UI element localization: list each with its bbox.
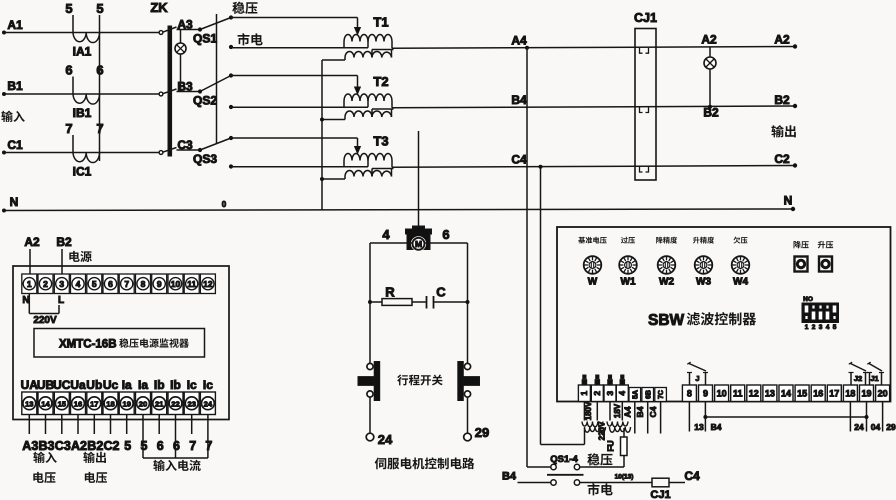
- lamp HL1: [175, 30, 186, 92]
- winding T2 series secondary: [345, 109, 394, 120]
- svg-text:6: 6: [173, 439, 180, 453]
- wire N line: [3, 200, 795, 211]
- svg-text:7: 7: [205, 439, 212, 453]
- coil CJ1: [652, 469, 700, 487]
- label shidian top: [238, 33, 263, 45]
- svg-text:220V: 220V: [33, 315, 57, 326]
- svg-text:4: 4: [826, 324, 830, 331]
- svg-text:15: 15: [58, 399, 67, 408]
- winding T1 series secondary: [345, 50, 394, 61]
- svg-text:QS1-4: QS1-4: [550, 454, 578, 465]
- svg-text:12: 12: [749, 389, 759, 399]
- transformer T2 label: [373, 74, 388, 89]
- svg-text:B2: B2: [56, 235, 72, 249]
- svg-text:18: 18: [106, 399, 114, 408]
- wire T2 secondary left to neutral bus: [322, 119, 345, 121]
- svg-text:W4: W4: [733, 277, 748, 288]
- wire T1 secondary left to neutral bus: [322, 59, 345, 61]
- svg-text:B1: B1: [7, 79, 23, 93]
- wire QS gang link: [216, 14, 218, 143]
- motor M body: [406, 226, 432, 250]
- svg-text:2: 2: [812, 324, 816, 331]
- svg-text:9: 9: [157, 279, 162, 289]
- svg-text:R: R: [385, 285, 395, 300]
- svg-text:3: 3: [819, 324, 823, 331]
- svg-text:N: N: [784, 194, 793, 208]
- svg-text:16: 16: [74, 399, 82, 408]
- svg-text:10: 10: [717, 389, 727, 399]
- svg-text:2: 2: [43, 279, 48, 289]
- svg-text:C4: C4: [511, 153, 527, 167]
- switch QS1-4 mains contact: [551, 480, 580, 485]
- svg-text:C2: C2: [104, 439, 120, 453]
- button step-down: [794, 241, 809, 272]
- winding controller supply A: [582, 422, 606, 433]
- relay contact J2: [849, 362, 869, 385]
- label shidian bottom: [588, 483, 613, 495]
- svg-text:C3: C3: [55, 439, 71, 453]
- switch QS2: [193, 73, 233, 109]
- svg-text:B4: B4: [511, 93, 527, 107]
- svg-text:IB1: IB1: [73, 106, 92, 120]
- svg-text:1: 1: [579, 391, 589, 396]
- svg-text:5A: 5A: [632, 390, 639, 399]
- potentiometer W: [584, 256, 602, 274]
- svg-text:Uc: Uc: [103, 378, 119, 392]
- breaker ZK bar: [150, 0, 171, 156]
- svg-text:Ic: Ic: [203, 378, 213, 392]
- svg-text:1: 1: [805, 324, 809, 331]
- svg-text:22: 22: [171, 399, 179, 408]
- label B2 mid: [703, 106, 719, 120]
- svg-text:Ub: Ub: [86, 378, 102, 392]
- svg-text:QS2: QS2: [193, 94, 217, 108]
- svg-text:B4: B4: [635, 406, 645, 417]
- svg-text:UB: UB: [37, 378, 55, 392]
- monitor terminal wires: [29, 415, 208, 459]
- label output: [771, 125, 795, 137]
- wire mains to coil: [580, 474, 652, 483]
- svg-text:N: N: [22, 295, 29, 306]
- svg-text:A2: A2: [71, 439, 87, 453]
- svg-text:12: 12: [203, 279, 213, 289]
- labels UA..Ic: [21, 378, 214, 392]
- potentiometer W1: [619, 256, 637, 274]
- label 220V: [598, 421, 607, 440]
- winding T3 primary: [344, 154, 392, 168]
- svg-text:3: 3: [59, 279, 64, 289]
- button step-up: [818, 241, 833, 272]
- label servo circuit: [375, 457, 475, 469]
- winding controller supply B: [607, 422, 631, 433]
- switch QS1-4 regulated contact: [551, 464, 624, 469]
- label W: [588, 277, 598, 288]
- svg-text:5: 5: [141, 439, 148, 453]
- svg-text:C4: C4: [648, 406, 658, 417]
- switch QS1: [193, 15, 233, 49]
- label B2 out: [774, 93, 790, 107]
- label A2 mid: [701, 33, 717, 47]
- label W2 function: [656, 237, 677, 244]
- svg-text:C4: C4: [684, 469, 700, 483]
- wire T3 secondary left to neutral bus: [322, 178, 345, 180]
- svg-text:ZK: ZK: [150, 0, 168, 15]
- svg-text:L: L: [58, 295, 64, 306]
- sense wires A4 B4 C4: [622, 402, 660, 434]
- svg-text:18: 18: [845, 389, 855, 399]
- svg-text:5: 5: [96, 1, 103, 16]
- svg-text:A2: A2: [701, 33, 717, 47]
- terminal strip 13-24: [22, 392, 216, 415]
- label W function: [578, 237, 606, 244]
- svg-text:14: 14: [781, 389, 791, 399]
- svg-text:7C: 7C: [658, 390, 665, 399]
- label limit switch: [397, 375, 443, 386]
- label W3 function: [693, 237, 714, 244]
- svg-text:4: 4: [382, 227, 390, 242]
- svg-text:220V: 220V: [598, 421, 607, 440]
- svg-text:B4: B4: [711, 422, 722, 432]
- contact CJ1 phase at y166: [640, 167, 649, 172]
- breaker ZK pole C3: [159, 138, 200, 154]
- label output voltage: [83, 452, 107, 483]
- wire terminal 19 down: [865, 402, 881, 433]
- wire T2 mains feed: [231, 106, 368, 108]
- node A1 input terminal: [2, 18, 23, 35]
- svg-text:C1: C1: [7, 138, 23, 152]
- breaker ZK pole B3: [159, 80, 200, 96]
- svg-text:24: 24: [854, 422, 864, 432]
- svg-text:17: 17: [90, 399, 98, 408]
- contactor CJ1 box: [634, 11, 657, 180]
- svg-text:10(13): 10(13): [615, 474, 634, 481]
- label A2 feed: [24, 235, 40, 274]
- current transformer IA1: [65, 1, 103, 59]
- wire B4 feed: [502, 471, 551, 483]
- svg-text:T2: T2: [373, 74, 388, 89]
- wire motor leads: [370, 227, 468, 243]
- terminal 24: [366, 397, 393, 447]
- controller box: [557, 227, 891, 402]
- svg-text:M: M: [415, 239, 422, 249]
- wire CT secondary vertical: [99, 15, 101, 161]
- motor M circle: [411, 236, 426, 251]
- svg-text:QS1: QS1: [193, 32, 217, 46]
- wire T1 mains feed: [231, 47, 368, 49]
- svg-text:15: 15: [797, 389, 807, 399]
- svg-text:IA1: IA1: [73, 45, 92, 59]
- svg-text:Ia: Ia: [122, 378, 132, 392]
- node B1 input terminal: [2, 79, 23, 96]
- svg-text:5: 5: [833, 324, 837, 331]
- svg-text:B2: B2: [87, 439, 103, 453]
- limit switch SQ2: [458, 362, 480, 401]
- contact CJ1 phase at y106: [640, 107, 649, 112]
- potentiometer W4: [732, 256, 750, 274]
- arrow T3 tap: [355, 147, 361, 154]
- svg-text:5: 5: [65, 1, 72, 16]
- svg-text:3: 3: [605, 391, 615, 396]
- label 180V: [584, 401, 593, 420]
- svg-text:B4: B4: [502, 471, 517, 483]
- svg-text:04: 04: [871, 422, 881, 432]
- resistor R: [368, 285, 427, 306]
- svg-text:Ua: Ua: [70, 378, 86, 392]
- wire servo left branch: [369, 243, 371, 363]
- svg-text:24: 24: [204, 399, 213, 408]
- node C1 input terminal: [2, 138, 23, 155]
- svg-text:C: C: [436, 285, 446, 300]
- svg-text:J: J: [695, 374, 699, 383]
- terminal strip 1-12: [22, 274, 216, 294]
- label SBW controller: [648, 312, 756, 329]
- svg-text:UC: UC: [53, 378, 71, 392]
- label W2: [659, 277, 674, 288]
- svg-text:10: 10: [171, 279, 181, 289]
- svg-text:N: N: [10, 195, 19, 209]
- svg-text:8: 8: [687, 389, 692, 399]
- label W1: [621, 277, 636, 288]
- labels under monitor: [22, 439, 212, 453]
- label A2 out: [774, 33, 790, 47]
- wire terminal 20 down: [883, 402, 896, 433]
- label W4 function: [734, 237, 748, 244]
- svg-text:UA: UA: [21, 378, 39, 392]
- wire C4 sense drop: [541, 167, 585, 445]
- current transformer IC1: [65, 121, 103, 179]
- wire A4 line: [392, 33, 797, 49]
- svg-text:J1: J1: [870, 374, 878, 383]
- svg-text:21: 21: [155, 399, 164, 408]
- wire B4 line: [392, 93, 797, 108]
- wire T3 mains feed: [231, 166, 368, 168]
- label C2 out: [774, 152, 790, 166]
- wire T3 regulated feed: [231, 138, 358, 148]
- transformer T3 label: [373, 134, 388, 149]
- wire C4 line: [392, 153, 797, 169]
- controller terminals 1-4: [578, 385, 628, 402]
- breaker ZK pole A3: [159, 18, 200, 35]
- svg-text:1: 1: [27, 279, 32, 289]
- label power: [69, 251, 91, 262]
- svg-text:Ib: Ib: [170, 378, 181, 392]
- svg-text:A4: A4: [622, 406, 632, 417]
- monitor box: [13, 266, 229, 420]
- fuse FU: [606, 428, 628, 467]
- svg-text:B2: B2: [774, 93, 790, 107]
- svg-text:19: 19: [122, 399, 130, 408]
- svg-text:13: 13: [694, 422, 704, 432]
- svg-text:Ia: Ia: [138, 378, 148, 392]
- svg-text:20: 20: [139, 399, 147, 408]
- label N out: [784, 194, 793, 208]
- svg-text:13: 13: [25, 399, 33, 408]
- svg-text:2: 2: [592, 391, 602, 396]
- svg-text:29: 29: [886, 422, 896, 432]
- svg-text:Ib: Ib: [154, 378, 165, 392]
- svg-text:14: 14: [41, 399, 50, 408]
- svg-text:17: 17: [829, 389, 839, 399]
- contact CJ1 phase at y47: [640, 48, 649, 53]
- svg-text:W2: W2: [659, 277, 674, 288]
- svg-text:CJ1: CJ1: [650, 489, 670, 500]
- wire T2 regulated feed: [231, 76, 358, 89]
- current transformer IB1: [65, 63, 103, 121]
- svg-text:QS3: QS3: [193, 152, 217, 166]
- wire neutral bus of windings: [320, 60, 324, 210]
- svg-text:J2: J2: [854, 374, 862, 383]
- wires terminals 1-4 down: [584, 402, 622, 421]
- potentiometer W2: [658, 256, 676, 274]
- wire terminal 8 down: [689, 402, 704, 433]
- capacitor C: [427, 285, 470, 309]
- svg-text:A2: A2: [24, 235, 40, 249]
- svg-text:6: 6: [442, 227, 449, 242]
- label B2 feed: [56, 235, 72, 274]
- svg-text:9: 9: [703, 389, 708, 399]
- label 18V: [613, 403, 622, 418]
- arrow T2 tap: [355, 87, 361, 94]
- svg-text:11: 11: [187, 279, 196, 289]
- svg-text:Ic: Ic: [187, 378, 197, 392]
- svg-text:SBW: SBW: [648, 312, 685, 329]
- svg-text:A2: A2: [774, 33, 790, 47]
- terminal 29: [464, 397, 490, 441]
- wire servo right branch: [467, 243, 469, 363]
- relay contact J: [687, 362, 708, 385]
- svg-text:180V: 180V: [584, 401, 593, 420]
- svg-text:C3: C3: [177, 138, 193, 152]
- svg-text:11: 11: [733, 389, 743, 399]
- label input: [1, 111, 24, 122]
- arrow T1 tap: [355, 28, 361, 35]
- wire sense bus: [705, 416, 866, 418]
- svg-text:W1: W1: [621, 277, 636, 288]
- svg-text:T3: T3: [373, 134, 388, 149]
- svg-text:24: 24: [378, 432, 393, 447]
- svg-text:A4: A4: [511, 33, 527, 47]
- svg-text:4: 4: [617, 391, 627, 396]
- svg-text:NO: NO: [803, 296, 813, 303]
- monitor nameplate: [34, 329, 205, 358]
- svg-text:23: 23: [187, 399, 195, 408]
- svg-text:FU: FU: [606, 440, 616, 451]
- svg-text:7: 7: [189, 439, 196, 453]
- svg-text:6: 6: [108, 279, 113, 289]
- svg-text:W: W: [588, 277, 598, 288]
- lamp HL2: [704, 47, 716, 109]
- svg-text:C2: C2: [774, 152, 790, 166]
- svg-text:XMTC-16B: XMTC-16B: [59, 339, 117, 351]
- label wenya bottom: [587, 453, 612, 465]
- svg-text:B3: B3: [177, 80, 193, 94]
- potentiometer W3: [695, 256, 713, 274]
- label N L 220V: [22, 294, 64, 326]
- switch QS1-4 blade: [547, 474, 584, 476]
- DIP switch NO: [802, 296, 839, 323]
- wire C1 line: [3, 152, 161, 154]
- switch QS3: [193, 136, 233, 169]
- winding T3 series secondary: [345, 169, 394, 180]
- label wenya top: [232, 2, 257, 14]
- svg-text:T1: T1: [373, 15, 388, 30]
- svg-text:0: 0: [222, 200, 227, 209]
- label W1 function: [621, 237, 635, 244]
- svg-text:8: 8: [141, 279, 146, 289]
- svg-text:A1: A1: [7, 18, 23, 32]
- wire winding left end: [584, 428, 586, 445]
- svg-text:16: 16: [813, 389, 823, 399]
- limit switch SQ1: [358, 362, 380, 401]
- svg-text:20: 20: [878, 389, 888, 399]
- controller terminals 5A 6B 7C: [629, 388, 666, 402]
- label input voltage: [33, 452, 56, 483]
- svg-text:6: 6: [157, 439, 164, 453]
- winding T1 primary: [344, 35, 392, 49]
- wire terminal 18 down: [850, 402, 864, 433]
- label input current: [153, 460, 200, 471]
- svg-text:5: 5: [92, 279, 97, 289]
- winding T2 primary: [344, 94, 392, 108]
- wire terminal 9 down: [703, 402, 721, 433]
- node N input terminal: [2, 195, 18, 213]
- svg-text:6: 6: [65, 63, 72, 78]
- label W4: [733, 277, 748, 288]
- svg-text:A3: A3: [177, 18, 193, 32]
- svg-text:CJ1: CJ1: [634, 11, 657, 25]
- wire A4 sense drop: [527, 48, 551, 467]
- relay contact J1: [867, 362, 884, 385]
- svg-text:13: 13: [765, 389, 775, 399]
- wire T1 regulated feed: [231, 18, 358, 29]
- transformer T1 label: [373, 15, 388, 30]
- svg-text:B3: B3: [39, 439, 55, 453]
- wire B1 line: [3, 93, 161, 95]
- svg-text:IC1: IC1: [73, 165, 92, 179]
- svg-text:29: 29: [475, 425, 489, 440]
- label CJ1 coil: [650, 489, 670, 500]
- DIP digits: [805, 324, 837, 331]
- svg-text:19: 19: [861, 389, 871, 399]
- svg-text:W3: W3: [696, 277, 711, 288]
- label W3: [696, 277, 711, 288]
- svg-text:18V: 18V: [613, 403, 622, 418]
- svg-text:A3: A3: [22, 439, 38, 453]
- controller terminals 8-20: [682, 385, 889, 402]
- pin lugs above terminals 1-4: [582, 375, 625, 385]
- svg-text:4: 4: [76, 279, 81, 289]
- wire A1 line: [3, 32, 161, 34]
- svg-text:5: 5: [124, 439, 131, 453]
- label QS1-4: [550, 454, 578, 465]
- svg-text:7: 7: [124, 279, 129, 289]
- wire motor drive line: [418, 131, 420, 229]
- svg-text:7: 7: [65, 121, 72, 136]
- svg-text:6B: 6B: [645, 390, 652, 399]
